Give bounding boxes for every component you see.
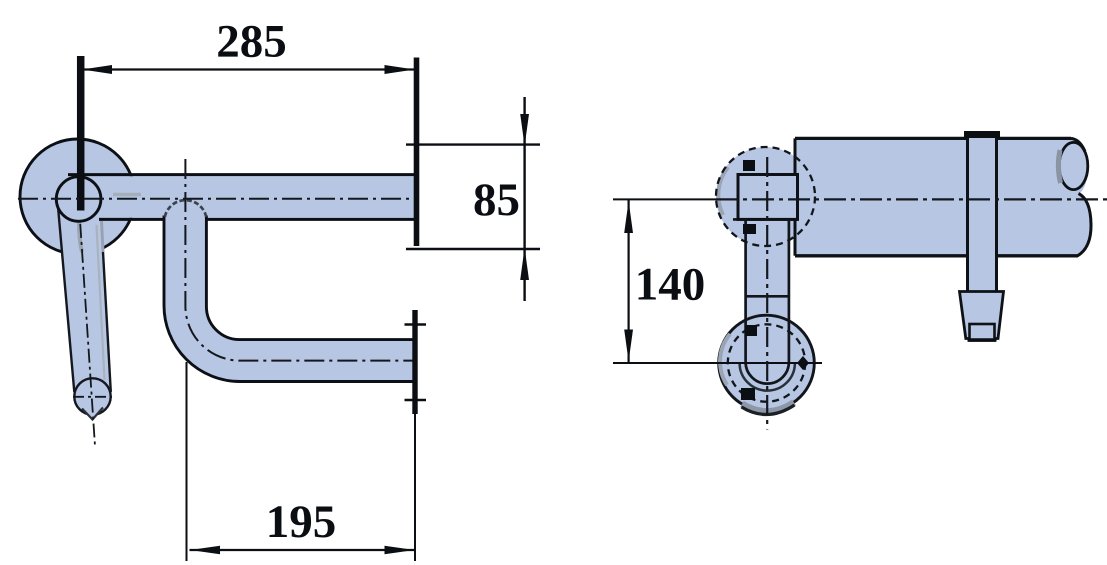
dimension line 140 [624, 199, 633, 363]
end ellipse shading [1058, 150, 1060, 183]
flange disc (large circle) [20, 139, 135, 254]
link tube edges [746, 219, 789, 363]
lower tube centerline [185, 159, 416, 361]
lever centerline [79, 199, 95, 446]
pin wedge [960, 292, 1004, 339]
top flange disc (fill) [716, 147, 815, 246]
bottom flange shading [720, 334, 730, 385]
cylinder centerline [716, 198, 1107, 200]
link eye outer arc [740, 363, 795, 391]
dimension 140 extension lines [613, 198, 716, 200]
lever ball end [74, 378, 110, 419]
tube shading smudge [113, 193, 141, 197]
top flange shading [718, 167, 728, 215]
bottom collar band [742, 403, 794, 412]
ball crosshair [73, 396, 112, 398]
link centerline [766, 157, 768, 430]
lower L-tube [164, 212, 415, 382]
bolt dots top flange [743, 160, 755, 171]
top flange dashed circle [716, 147, 815, 246]
lower tube end bar [412, 310, 417, 414]
svg-text:285: 285 [216, 16, 287, 68]
square boss [738, 175, 798, 220]
hub small circle [56, 177, 101, 222]
link joint line [746, 295, 789, 298]
upper tube centerline [18, 198, 416, 200]
end bar ticks [405, 325, 427, 401]
dimension line 195 [190, 546, 415, 555]
link tube fill [746, 219, 789, 383]
tube junction arch [165, 200, 206, 217]
svg-text:140: 140 [635, 259, 706, 311]
link eye inner arc [746, 362, 789, 384]
upper tube end bar (extension line, thick) [414, 58, 420, 247]
bottom flange disc [719, 315, 815, 411]
lever arm [58, 200, 111, 415]
svg-text:195: 195 [266, 496, 337, 548]
pin bar [964, 131, 1000, 292]
cylinder end lower lobe [1078, 194, 1092, 256]
bolt dots bottom flange [745, 325, 757, 336]
cylinder body [795, 138, 1091, 255]
extension line right (195) [414, 414, 416, 561]
cylinder end ellipse [1059, 142, 1088, 189]
dimension line 85 [520, 97, 529, 301]
extension line left (195) [186, 362, 188, 561]
cylinder end top corner [1071, 138, 1085, 151]
svg-text:85: 85 [473, 174, 520, 226]
dimension line 285 [82, 65, 415, 74]
vertical bar (pivot pin) [77, 56, 85, 211]
lever shading line [97, 225, 105, 380]
bottom flange dashed circle [728, 324, 805, 401]
pin tip [968, 324, 997, 341]
dimension 85 extension lines [406, 145, 540, 249]
upper tube [68, 175, 417, 220]
